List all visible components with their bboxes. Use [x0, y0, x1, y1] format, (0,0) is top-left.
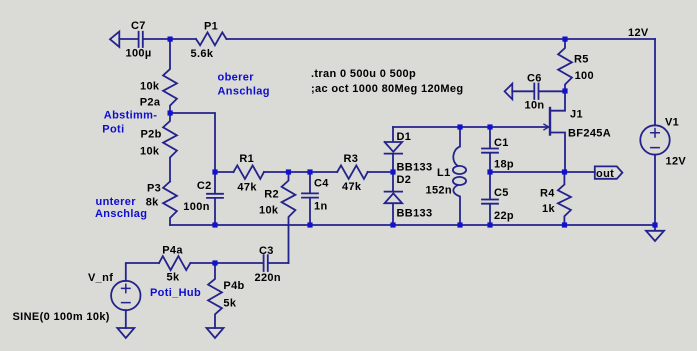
svg-text:5k: 5k	[167, 272, 180, 284]
svg-text:P1: P1	[204, 21, 218, 33]
ground (left of C6, pointing left)	[505, 84, 513, 100]
ground (bottom right)	[646, 225, 664, 241]
resistor R4	[558, 172, 571, 225]
diode D2	[385, 172, 403, 225]
svg-text:1k: 1k	[542, 203, 555, 215]
diode D1	[385, 127, 403, 172]
svg-text:12V: 12V	[666, 156, 687, 168]
resistor P2b	[163, 113, 177, 182]
wire V_nf to P4a	[126, 263, 159, 281]
capacitor C5	[482, 172, 498, 225]
wire C7 to node A	[144, 38, 196, 40]
inductor L1	[453, 127, 460, 166]
resistor P1	[196, 32, 226, 45]
resistor R1	[234, 165, 265, 179]
resistor P3	[163, 182, 177, 226]
svg-text:152n: 152n	[426, 185, 452, 197]
svg-text:R5: R5	[574, 54, 589, 66]
svg-text:D1: D1	[397, 131, 412, 143]
capacitor C6	[534, 84, 538, 100]
svg-text:10n: 10n	[525, 100, 545, 112]
svg-text:L1: L1	[437, 167, 451, 179]
svg-text:.tran 0 500u 0 500p: .tran 0 500u 0 500p	[311, 68, 416, 80]
svg-text:J1: J1	[570, 109, 583, 121]
svg-text:220n: 220n	[255, 272, 281, 284]
transistor J1 source lead	[550, 133, 565, 173]
wire R3 to D1/D2 node	[368, 171, 393, 173]
resistor P4a	[159, 256, 190, 270]
wire C6 to node D	[540, 90, 566, 92]
svg-text:C6: C6	[527, 73, 542, 85]
node junction J1 source/R4/out	[562, 169, 567, 174]
node junction L1 top	[457, 124, 462, 129]
svg-text:5k: 5k	[223, 298, 236, 310]
svg-text:R3: R3	[344, 153, 359, 165]
capacitor C3	[264, 255, 268, 271]
svg-text:C7: C7	[131, 20, 146, 32]
wire ground to C7	[119, 38, 137, 40]
node junction C4 bottom	[307, 222, 312, 227]
svg-text:BB133: BB133	[397, 162, 433, 174]
node junction R1/R2	[286, 169, 291, 174]
resistor R2	[282, 172, 296, 263]
svg-text:Anschlag: Anschlag	[218, 86, 270, 98]
capacitor C4	[302, 172, 318, 225]
capacitor C1	[482, 127, 498, 172]
ground (below P4b)	[207, 328, 224, 338]
resistor P4b	[208, 263, 222, 328]
svg-text:D2: D2	[397, 174, 412, 186]
svg-text:out: out	[596, 168, 614, 180]
wire V_nf to ground	[125, 310, 127, 328]
svg-text:C4: C4	[314, 178, 329, 190]
svg-text:BF245A: BF245A	[568, 128, 611, 140]
svg-text:8k: 8k	[146, 197, 159, 209]
svg-text:V_nf: V_nf	[88, 272, 113, 284]
wire ground rail y=225	[170, 224, 655, 226]
wire P1 to 12V rail corner	[226, 38, 655, 40]
svg-text:Anschlag: Anschlag	[95, 208, 147, 220]
wire V1 to ground rail	[654, 155, 656, 225]
svg-text:100µ: 100µ	[126, 48, 152, 60]
svg-text:10k: 10k	[140, 146, 160, 158]
node junction L1 bottom	[457, 222, 462, 227]
node junction C1 top	[487, 124, 492, 129]
svg-text:oberer: oberer	[218, 72, 255, 84]
svg-text:22p: 22p	[494, 210, 514, 222]
node junction C2 bottom	[212, 222, 217, 227]
node junction R5/C6/J1 drain	[562, 88, 567, 93]
node junction poti wiper	[168, 110, 173, 115]
wire 12V rail down to V1	[654, 39, 656, 125]
output port out	[595, 166, 623, 178]
svg-text:;ac oct 1000 80Meg 120Meg: ;ac oct 1000 80Meg 120Meg	[311, 83, 463, 95]
svg-text:100n: 100n	[183, 201, 209, 213]
wire ground to C6	[512, 90, 533, 92]
svg-text:R1: R1	[239, 153, 254, 165]
voltage source V_nf	[111, 281, 140, 310]
svg-text:C2: C2	[197, 180, 212, 192]
capacitor C2	[207, 172, 223, 225]
svg-text:C1: C1	[494, 137, 509, 149]
svg-text:C3: C3	[259, 245, 274, 257]
svg-text:P2a: P2a	[140, 97, 161, 109]
transistor J1 channel bar	[549, 108, 551, 135]
svg-text:18p: 18p	[494, 159, 514, 171]
svg-text:BB133: BB133	[397, 208, 433, 220]
node junction D2 bottom	[390, 222, 395, 227]
svg-text:R2: R2	[264, 189, 279, 201]
svg-text:P2b: P2b	[141, 129, 162, 141]
svg-text:C5: C5	[494, 187, 509, 199]
transistor J1 drain lead	[550, 91, 565, 111]
capacitor C7	[139, 32, 143, 47]
node junction R4 bottom	[562, 222, 567, 227]
ground (left of C7, pointing left)	[110, 32, 119, 48]
svg-text:47k: 47k	[237, 182, 257, 194]
potentiometer chain: resistor P2a	[163, 39, 177, 113]
node junction C5 bottom	[487, 222, 492, 227]
wire C3 to R2 bottom	[269, 262, 289, 264]
node junction C4 top	[307, 169, 312, 174]
wire R1 to R3	[264, 171, 337, 173]
svg-text:P4a: P4a	[162, 244, 183, 256]
svg-text:47k: 47k	[342, 181, 362, 193]
svg-text:P3: P3	[147, 183, 161, 195]
wire P4a to node Poti_Hub	[190, 262, 262, 264]
svg-text:1n: 1n	[314, 201, 328, 213]
svg-text:100: 100	[575, 70, 594, 82]
node junction C2 top	[212, 169, 217, 174]
wire tuning rail y=172 left	[170, 113, 234, 172]
svg-text:10k: 10k	[259, 205, 279, 217]
node junction D1/D2	[390, 169, 395, 174]
svg-text:Abstimm-: Abstimm-	[104, 110, 158, 122]
svg-text:unterer: unterer	[96, 196, 137, 208]
svg-text:10k: 10k	[140, 81, 160, 93]
resistor R5	[558, 39, 572, 91]
svg-text:SINE(0 100m 10k): SINE(0 100m 10k)	[13, 311, 110, 323]
svg-text:R4: R4	[540, 188, 555, 200]
node junction C1/C5	[487, 169, 492, 174]
wire output rail y=172 right	[490, 171, 595, 173]
node junction 12V/R5	[562, 37, 567, 42]
svg-text:P4b: P4b	[223, 280, 244, 292]
svg-text:V1: V1	[665, 117, 679, 129]
wire gate rail y=127	[393, 126, 549, 128]
svg-text:Poti: Poti	[102, 124, 124, 136]
node junction V1/ground	[652, 222, 657, 227]
svg-text:5.6k: 5.6k	[191, 48, 214, 60]
ground (below V_nf)	[117, 328, 134, 338]
node junction C7/P1/P2a	[168, 37, 173, 42]
voltage source V1	[640, 125, 669, 154]
node junction Poti_Hub	[212, 260, 217, 265]
resistor R3	[337, 165, 367, 179]
transistor J1 gate arrow	[544, 124, 549, 130]
svg-text:Poti_Hub: Poti_Hub	[150, 287, 201, 299]
svg-text:12V: 12V	[628, 27, 649, 39]
